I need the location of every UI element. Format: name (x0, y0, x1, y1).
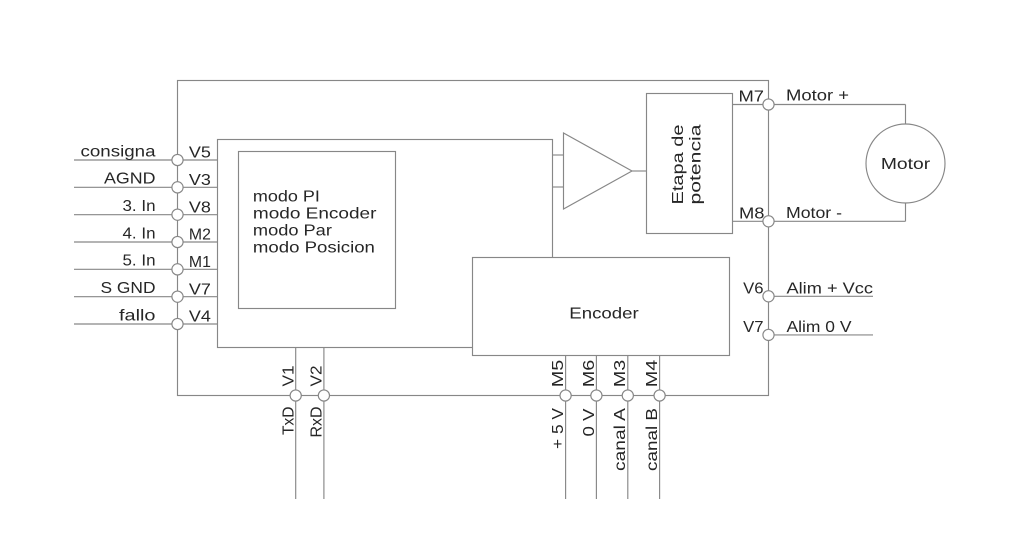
svg-text:canal B: canal B (644, 408, 661, 471)
svg-text:V6: V6 (743, 281, 763, 298)
svg-text:modo PI: modo PI (253, 189, 320, 206)
svg-text:M1: M1 (189, 254, 211, 271)
svg-text:V4: V4 (189, 309, 211, 326)
svg-text:TxD: TxD (280, 407, 297, 436)
svg-text:RxD: RxD (309, 407, 326, 438)
svg-text:5. In: 5. In (123, 253, 156, 270)
svg-text:Alim + Vcc: Alim + Vcc (787, 280, 874, 297)
svg-text:fallo: fallo (119, 307, 156, 324)
svg-text:V8: V8 (189, 199, 211, 216)
svg-text:Motor -: Motor - (786, 205, 842, 222)
svg-text:V5: V5 (189, 145, 211, 162)
svg-text:Alim 0 V: Alim 0 V (787, 319, 853, 336)
svg-text:3. In: 3. In (123, 198, 156, 215)
svg-text:V7: V7 (743, 319, 763, 336)
svg-text:4. In: 4. In (123, 225, 156, 242)
svg-text:V2: V2 (309, 366, 326, 387)
svg-text:Motor +: Motor + (786, 88, 849, 105)
svg-text:V1: V1 (280, 366, 297, 387)
svg-text:M4: M4 (644, 359, 661, 387)
svg-text:0 V: 0 V (581, 408, 598, 437)
svg-text:M2: M2 (189, 227, 211, 244)
svg-text:canal A: canal A (612, 407, 629, 471)
svg-text:modo Encoder: modo Encoder (253, 206, 377, 223)
svg-text:Encoder: Encoder (569, 306, 638, 323)
svg-text:V3: V3 (189, 172, 211, 189)
svg-text:Etapa de: Etapa de (670, 125, 687, 205)
svg-text:V7: V7 (189, 281, 211, 298)
svg-text:AGND: AGND (104, 171, 156, 188)
svg-text:+ 5 V: + 5 V (550, 407, 567, 449)
svg-text:S GND: S GND (101, 280, 156, 297)
svg-text:modo Posicion: modo Posicion (253, 240, 375, 257)
svg-text:Motor: Motor (881, 156, 930, 173)
svg-text:M6: M6 (581, 360, 598, 388)
svg-text:consigna: consigna (81, 143, 156, 160)
svg-text:M5: M5 (550, 359, 567, 387)
svg-text:M3: M3 (612, 360, 629, 388)
svg-text:potencia: potencia (688, 124, 705, 204)
svg-text:modo Par: modo Par (253, 223, 332, 240)
svg-text:M7: M7 (739, 89, 765, 106)
svg-text:M8: M8 (739, 206, 765, 223)
